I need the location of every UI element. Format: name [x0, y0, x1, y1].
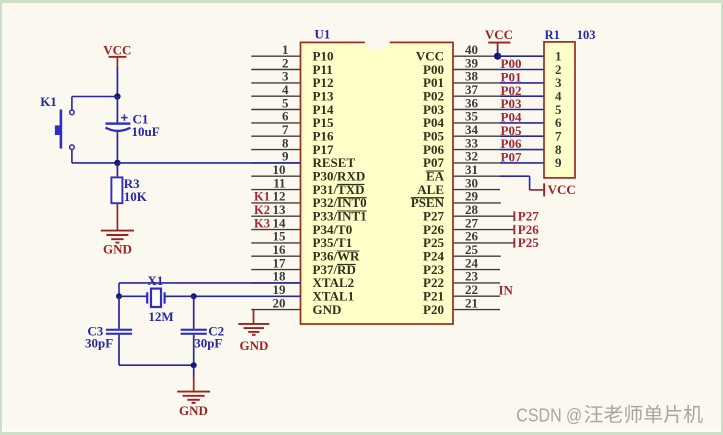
svg-text:VCC: VCC — [103, 43, 131, 58]
wire P06 pin 33 to R1 pin 8 — [500, 149, 544, 151]
wire node A to switch top — [72, 96, 118, 98]
wire U1 pin 6 stub — [251, 122, 300, 124]
wire U1 pin 26 stub — [453, 242, 514, 244]
svg-text:K1: K1 — [254, 190, 270, 204]
svg-text:IN: IN — [499, 282, 514, 297]
wire U1 pin 20 stub — [251, 309, 300, 311]
capacitor C3 — [118, 296, 120, 329]
wire pin20 GND — [253, 310, 255, 324]
wire U1 pin 39 stub — [453, 69, 500, 71]
wire U1 pin 9 stub — [251, 162, 300, 164]
node D junction — [191, 293, 197, 299]
wire U1 pin 19 stub — [251, 295, 300, 297]
svg-text:9: 9 — [555, 155, 562, 170]
wire to crystal ground — [193, 365, 195, 377]
svg-text:21: 21 — [465, 295, 478, 310]
wire pin40 to R1 pin1 — [498, 55, 544, 57]
svg-text:20: 20 — [273, 295, 286, 310]
wire U1 pin 11 stub — [251, 189, 300, 191]
capacitor C1 — [116, 97, 118, 123]
wire U1 pin 37 stub — [453, 95, 500, 97]
wire U1 pin 31 stub — [453, 175, 500, 177]
node C junction — [116, 293, 122, 299]
node B junction — [114, 160, 120, 166]
wire U1 pin 36 stub — [453, 109, 500, 111]
wire R3 to ground — [116, 203, 118, 230]
svg-text:K3: K3 — [254, 216, 270, 230]
ground symbol (below R3) — [101, 230, 134, 232]
wire P01 pin 38 to R1 pin 3 — [500, 82, 544, 84]
wire P05 pin 34 to R1 pin 7 — [500, 135, 544, 137]
svg-text:12M: 12M — [148, 309, 173, 324]
wire U1 pin 5 stub — [251, 109, 300, 111]
wire U1 pin 8 stub — [251, 149, 300, 151]
wire U1 pin 25 stub — [453, 255, 501, 257]
ground symbol (pin 20) — [238, 323, 269, 325]
wire U1 pin 27 stub — [453, 229, 514, 231]
svg-text:GND: GND — [103, 241, 132, 256]
svg-text:K1: K1 — [40, 94, 57, 109]
wire U1 pin 10 stub — [251, 175, 300, 177]
wire U1 pin 35 stub — [453, 122, 500, 124]
wire U1 pin 32 stub — [453, 162, 500, 164]
svg-text:P07: P07 — [501, 150, 522, 165]
wire U1 pin 7 stub — [251, 135, 300, 137]
wire U1 pin 1 stub — [251, 55, 300, 57]
wire U1 pin 12 stub — [251, 202, 300, 204]
wire U1 pin 34 stub — [453, 135, 500, 137]
wire U1 pin 14 stub — [251, 229, 300, 231]
resistor network R1 — [544, 42, 575, 178]
svg-text:GND: GND — [179, 403, 208, 418]
ground symbol (below crystal caps) — [177, 391, 210, 393]
node E junction — [191, 362, 197, 368]
wire XTAL2 pin18 — [119, 282, 301, 284]
node F junction — [494, 53, 501, 60]
wire U1 pin 16 stub — [251, 255, 300, 257]
svg-text:GND: GND — [313, 302, 342, 317]
svg-text:30pF: 30pF — [194, 336, 222, 351]
wire U1 pin 4 stub — [251, 95, 300, 97]
wire U1 pin 15 stub — [251, 242, 300, 244]
wire P04 pin 35 to R1 pin 6 — [500, 122, 544, 124]
svg-text:VCC: VCC — [485, 27, 513, 42]
svg-text:10K: 10K — [124, 189, 148, 204]
svg-text:CSDN @: CSDN @ — [516, 404, 582, 425]
wire switch bottom to node B — [71, 150, 73, 163]
U1 pin-name overbars — [337, 183, 365, 185]
svg-text:P20: P20 — [423, 302, 444, 317]
svg-text:30pF: 30pF — [85, 336, 113, 351]
wire P00 pin 39 to R1 pin 2 — [500, 69, 544, 71]
wire U1 pin 22 stub — [453, 295, 500, 297]
wire U1 pin 33 stub — [453, 149, 500, 151]
svg-text:103: 103 — [577, 28, 596, 42]
wire U1 pin 21 stub — [453, 309, 500, 311]
wire XTAL1 pin19 — [194, 295, 301, 297]
watermark CJK glyphs — [584, 405, 602, 423]
wire VCC stem down to node A — [116, 67, 118, 97]
power VCC port (EA) — [543, 183, 545, 196]
wire RESET: node B to pin 9 — [117, 162, 300, 164]
svg-text:X1: X1 — [147, 273, 163, 288]
port bar P26 — [513, 225, 515, 235]
wire U1 pin 23 stub — [453, 282, 500, 284]
capacitor C2 — [193, 296, 195, 329]
wire P03 pin 36 to R1 pin 5 — [500, 109, 544, 111]
svg-text:U1: U1 — [315, 27, 331, 42]
wire U1 pin 2 stub — [251, 69, 300, 71]
port bar P27 — [513, 211, 515, 221]
wire P07 pin 32 to R1 pin 9 — [500, 162, 544, 164]
wire U1 pin 18 stub — [251, 282, 300, 284]
svg-text:K2: K2 — [254, 203, 270, 217]
wire bottom of caps — [119, 364, 194, 366]
port bar P25 — [513, 238, 515, 248]
wire U1 pin 28 stub — [453, 215, 514, 217]
wire U1 pin 3 stub — [251, 82, 300, 84]
wire EA pin31 to VCC port — [500, 175, 530, 177]
wire U1 pin 13 stub — [251, 215, 300, 217]
wire U1 pin 24 stub — [453, 269, 500, 271]
op-amp U1 microcontroller body — [301, 42, 454, 324]
svg-text:VCC: VCC — [548, 182, 576, 197]
svg-text:R1: R1 — [545, 28, 560, 42]
svg-text:10uF: 10uF — [132, 124, 160, 139]
svg-text:P25: P25 — [518, 235, 539, 250]
wire U1 pin 30 stub — [453, 189, 500, 191]
resistor R3 — [116, 163, 118, 178]
wire U1 pin 38 stub — [453, 82, 500, 84]
svg-text:GND: GND — [240, 338, 269, 353]
wire U1 pin 40 stub — [453, 55, 498, 57]
wire U1 pin 17 stub — [251, 269, 300, 271]
wire P02 pin 37 to R1 pin 4 — [500, 95, 544, 97]
wire U1 pin 29 stub — [453, 202, 501, 204]
node A junction — [114, 93, 120, 99]
